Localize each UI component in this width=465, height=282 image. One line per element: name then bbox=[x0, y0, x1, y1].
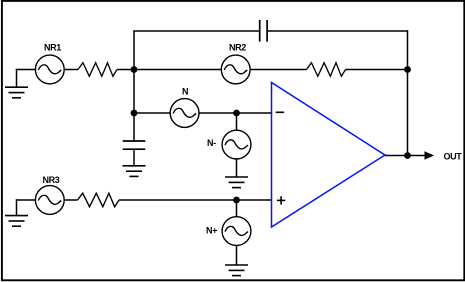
noise source NR3 bbox=[35, 186, 64, 215]
wire (right rail vertical) bbox=[407, 30, 409, 155]
pin label + (non-inverting) bbox=[277, 196, 285, 204]
wire (top rail left, to capacitor) bbox=[133, 30, 260, 32]
capacitor C2 (inverting node to ground) bbox=[123, 141, 146, 149]
wire (N+ down to ground) bbox=[236, 246, 238, 266]
ground (below N+) bbox=[225, 265, 248, 276]
wire (top rail vertical, node A up to feedback rail) bbox=[133, 31, 135, 70]
svg-text:OUT: OUT bbox=[444, 152, 463, 162]
wire (C2 to ground) bbox=[133, 149, 135, 166]
svg-text:N: N bbox=[182, 87, 188, 97]
ground (left of NR3) bbox=[5, 216, 28, 227]
wire (NR2 to R2) bbox=[250, 69, 306, 71]
wire (NR1 to R1) bbox=[64, 69, 78, 71]
wire (N to node C) bbox=[199, 112, 237, 114]
svg-text:NR3: NR3 bbox=[43, 175, 60, 185]
wire (ground stub up to NR1 row) bbox=[16, 69, 18, 87]
capacitor C1 (feedback) bbox=[260, 20, 267, 42]
noise source NR2 bbox=[221, 55, 250, 84]
noise source NR1 bbox=[35, 55, 64, 84]
junction (output / right rail) bbox=[404, 152, 411, 159]
noise source N+ bbox=[222, 217, 251, 246]
wire (node C down to N-) bbox=[236, 113, 238, 130]
wire (R2 to right rail) bbox=[346, 69, 408, 71]
wire (node B down to capacitor C2) bbox=[133, 113, 135, 141]
junction node A bbox=[131, 66, 138, 73]
wire (node D to op-amp non-inverting input) bbox=[237, 199, 272, 201]
wire (ground to NR1) bbox=[16, 69, 36, 71]
wire (NR3 to R3) bbox=[64, 199, 77, 201]
svg-text:N-: N- bbox=[207, 138, 216, 148]
junction node C bbox=[233, 110, 240, 117]
noise source N bbox=[170, 99, 199, 128]
arrow head (OUT) bbox=[425, 151, 435, 159]
junction node B bbox=[131, 110, 138, 117]
pin label - (inverting) bbox=[276, 111, 285, 113]
wire (ground stub up to NR3 row) bbox=[16, 199, 18, 215]
wire (node A to NR2) bbox=[134, 69, 221, 71]
wire (op-amp output to OUT) bbox=[385, 155, 425, 157]
wire (top rail right, capacitor to right rail) bbox=[267, 30, 407, 32]
wire (node D down to N+) bbox=[236, 200, 238, 217]
wire (ground to NR3) bbox=[16, 199, 36, 201]
ground (below C2) bbox=[123, 166, 146, 177]
wire (R1 to node A) bbox=[117, 69, 134, 71]
resistor R2 bbox=[307, 63, 346, 77]
resistor R3 bbox=[78, 193, 119, 207]
svg-text:NR1: NR1 bbox=[44, 43, 61, 53]
wire (node A down to inverting row) bbox=[133, 70, 135, 114]
svg-text:NR2: NR2 bbox=[229, 43, 246, 53]
noise source N- bbox=[222, 130, 251, 159]
op-amp U1 bbox=[272, 83, 386, 228]
junction node D bbox=[233, 197, 240, 204]
ground (left of NR1) bbox=[5, 87, 28, 98]
wire (node C to op-amp inverting input) bbox=[237, 112, 272, 114]
wire (node B to N) bbox=[134, 112, 170, 114]
junction (right rail / R2) bbox=[404, 66, 411, 73]
resistor R1 bbox=[78, 63, 117, 77]
wire (N- down to ground) bbox=[236, 159, 238, 177]
ground (below N-) bbox=[225, 177, 248, 188]
wire (R3 to node D) bbox=[119, 199, 237, 201]
svg-text:N+: N+ bbox=[206, 226, 217, 236]
